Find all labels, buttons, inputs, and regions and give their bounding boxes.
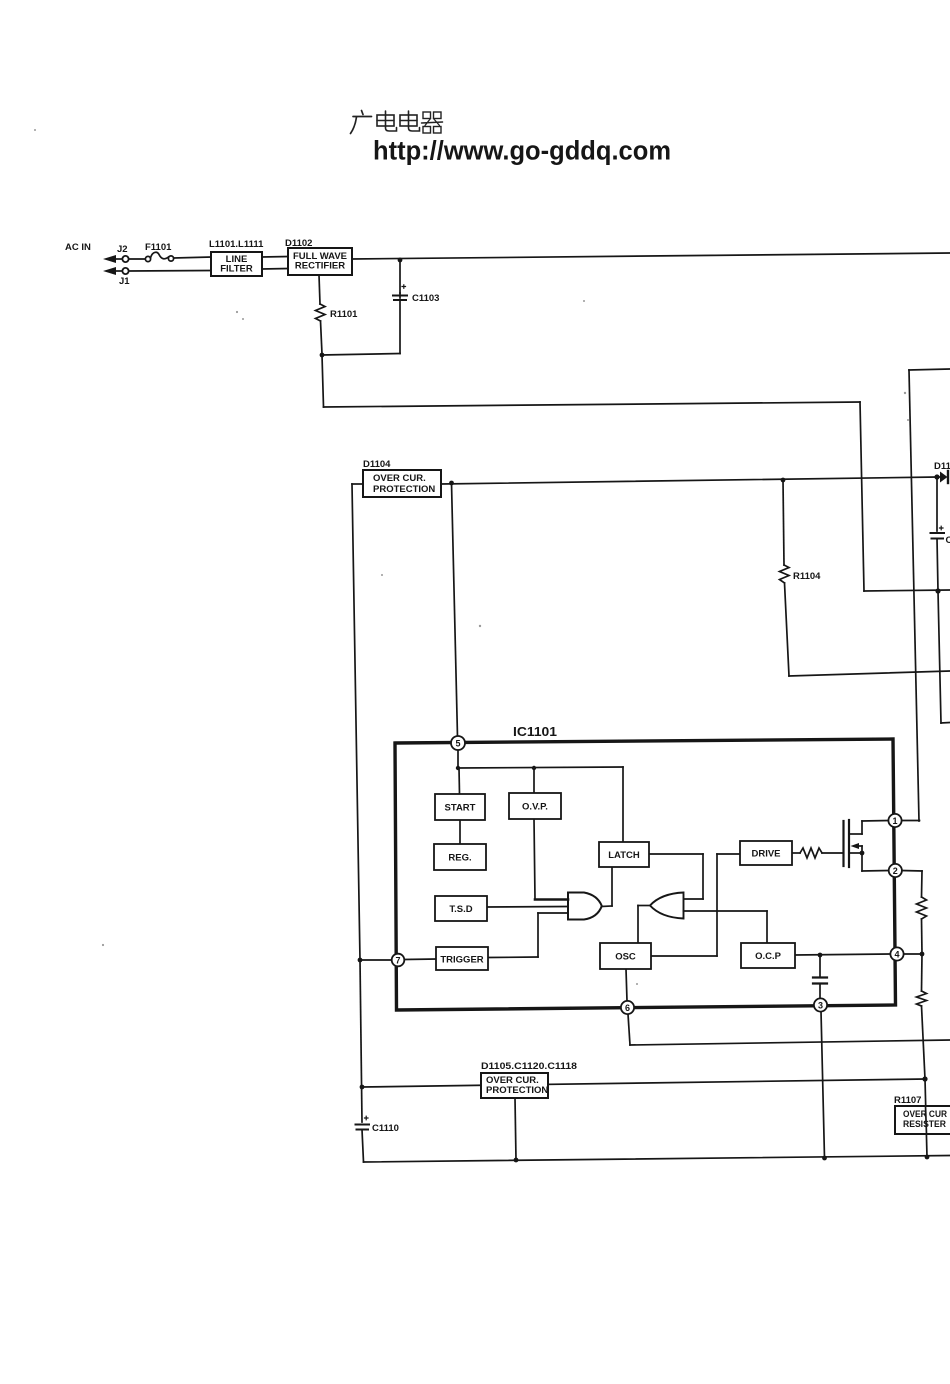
wire LATCH right to gate G2 xyxy=(649,853,703,855)
scan speck xyxy=(34,129,36,131)
svg-text:TRIGGER: TRIGGER xyxy=(440,955,483,966)
resistor R1101 xyxy=(316,304,326,321)
over current protection line (D1104 net) xyxy=(441,477,937,484)
svg-text:D110: D110 xyxy=(934,461,950,472)
resistor R1105 xyxy=(917,897,927,919)
block O.C.P xyxy=(741,943,795,968)
wire to pin 5 xyxy=(452,483,458,737)
svg-text:IC1101: IC1101 xyxy=(513,724,557,739)
resistor gate drive xyxy=(800,848,822,858)
wire TRIGGER to gate xyxy=(488,956,538,959)
block D1105 OVER CUR. PROTECTION xyxy=(481,1073,548,1098)
wire to START xyxy=(458,768,461,794)
scan speck xyxy=(479,625,481,627)
svg-text:O.C.P: O.C.P xyxy=(755,951,782,962)
internal top bus xyxy=(458,767,623,768)
pin 1 xyxy=(888,814,901,827)
node B+ top xyxy=(398,258,403,263)
wire to right edge xyxy=(789,671,950,676)
svg-text:4: 4 xyxy=(894,950,899,960)
wire OVP down xyxy=(534,819,535,899)
wire pin6 down xyxy=(628,1014,630,1045)
svg-text:C1: C1 xyxy=(946,535,950,546)
node pin5 feed xyxy=(449,481,454,486)
header chinese char 1 (guang) xyxy=(362,111,364,115)
svg-text:L1101.L1111: L1101.L1111 xyxy=(209,239,264,250)
svg-text:OSC: OSC xyxy=(615,952,636,963)
svg-text:R1104: R1104 xyxy=(793,571,821,582)
svg-text:R1107: R1107 xyxy=(894,1095,921,1106)
capacitor C1103 xyxy=(402,285,406,289)
block REG. xyxy=(434,844,486,870)
wire J2 to fuse xyxy=(129,258,146,260)
svg-text:J2: J2 xyxy=(117,244,128,255)
svg-text:http://www.go-gddq.com: http://www.go-gddq.com xyxy=(373,136,671,166)
transformer T1101 (cut at edge) xyxy=(909,369,950,370)
wire bottom AC rail to right xyxy=(324,402,861,407)
bottom rail xyxy=(364,1156,950,1163)
wire right to node xyxy=(864,590,950,591)
scan speck xyxy=(236,311,238,313)
wire fuse to line filter xyxy=(174,257,211,258)
node pin4 right xyxy=(920,952,925,957)
left rail down xyxy=(352,484,360,960)
wire gate G2 apex to OSC xyxy=(638,905,650,907)
wire down at x860 xyxy=(860,402,864,591)
wire line filter to rectifier bottom xyxy=(262,268,288,271)
wire R1101 to node xyxy=(321,321,323,354)
svg-text:DRIVE: DRIVE xyxy=(751,849,780,860)
wire pin3 down xyxy=(821,1011,825,1158)
block FULL WAVE RECTIFIER xyxy=(288,248,352,275)
node MOSFET source xyxy=(860,851,865,856)
header chinese char 3 (dian) xyxy=(400,115,417,126)
scan speck xyxy=(102,944,104,946)
wire resistor to pin4 node xyxy=(921,919,924,954)
IC1101 box xyxy=(395,739,896,1010)
svg-text:RESISTER: RESISTER xyxy=(903,1119,946,1130)
pin 6 xyxy=(621,1001,634,1014)
wire rectifier bottom to R1101 xyxy=(319,275,320,304)
svg-text:5: 5 xyxy=(455,739,460,749)
scan speck xyxy=(583,300,585,302)
wire gate G1 to LATCH bottom xyxy=(602,905,613,908)
fuse F1101 xyxy=(145,256,150,261)
block LATCH xyxy=(599,842,649,867)
wire DRIVE to gate resistor xyxy=(792,852,800,854)
node right 591 xyxy=(935,588,940,593)
svg-text:2: 2 xyxy=(893,866,898,876)
wire gate G2 to O.C.P xyxy=(684,910,768,912)
svg-text:1: 1 xyxy=(892,816,897,826)
pin 5 xyxy=(451,736,465,750)
svg-text:6: 6 xyxy=(625,1003,630,1013)
svg-text:D1104: D1104 xyxy=(363,459,391,470)
wire resistor to MOSFET gate xyxy=(822,852,843,854)
pin 7 xyxy=(392,954,405,967)
svg-text:D1102: D1102 xyxy=(285,238,312,249)
wire C1103 top xyxy=(399,260,401,293)
wire pin6 line to right edge xyxy=(630,1040,950,1045)
scan speck xyxy=(381,574,383,576)
over current protection line (D1105 net) xyxy=(362,1079,925,1087)
wire to R1104 xyxy=(783,480,784,565)
svg-text:LATCH: LATCH xyxy=(608,850,640,861)
wire node down xyxy=(322,355,324,407)
node R1107 bottom xyxy=(925,1155,930,1160)
block TRIGGER xyxy=(436,947,488,970)
resistor R1106 xyxy=(917,991,927,1006)
svg-text:OVER CUR.: OVER CUR. xyxy=(373,473,426,484)
capacitor C1110 xyxy=(365,1116,369,1120)
node pin7 rail xyxy=(358,958,363,963)
header chinese char 2 (dian) xyxy=(377,115,394,126)
wire rectifier to right edge (B+ rail) xyxy=(352,253,950,259)
scan speck xyxy=(242,318,244,320)
svg-text:C1103: C1103 xyxy=(412,293,439,304)
pin 4 xyxy=(890,947,903,960)
wire pin2 right xyxy=(902,870,923,873)
block DRIVE xyxy=(740,841,792,865)
block LINE FILTER xyxy=(211,252,262,276)
wire OSC to DRIVE xyxy=(651,955,717,957)
wire diode down to capacitor xyxy=(936,477,938,531)
svg-text:D1105.C1120.C1118: D1105.C1120.C1118 xyxy=(481,1061,577,1072)
block O.V.P. xyxy=(509,793,561,819)
wire capacitor to node xyxy=(937,539,938,592)
resistor R1104 xyxy=(780,565,790,583)
node left rail C1110 xyxy=(360,1085,365,1090)
header chinese char 4 (qi) xyxy=(423,112,431,119)
wire to LATCH top xyxy=(622,767,624,842)
svg-text:PROTECTION: PROTECTION xyxy=(373,484,435,495)
arrow J1 xyxy=(103,267,116,275)
wire node through R1107 box to bottom rail xyxy=(925,1079,927,1157)
pin 2 xyxy=(889,864,902,877)
transistor Q1101 MOSFET xyxy=(842,821,844,866)
wire resistor down to node xyxy=(922,1006,926,1079)
wire line filter to rectifier top xyxy=(262,256,288,259)
wire through R1107 box xyxy=(926,1106,927,1134)
wire node down xyxy=(921,954,924,991)
capacitor C (pin3) xyxy=(813,976,827,978)
wire R1104 down xyxy=(785,583,790,676)
svg-text:FILTER: FILTER xyxy=(220,264,253,275)
node internal bus ovp xyxy=(532,766,536,770)
wire into transformer xyxy=(941,722,950,725)
svg-text:RECTIFIER: RECTIFIER xyxy=(295,261,345,272)
pin 3 xyxy=(814,998,827,1011)
svg-text:3: 3 xyxy=(818,1001,823,1011)
capacitor C1108 right edge xyxy=(940,526,944,530)
svg-text:C1110: C1110 xyxy=(372,1123,399,1134)
wire START to REG xyxy=(459,820,461,844)
svg-text:7: 7 xyxy=(395,956,400,966)
arrow J2 xyxy=(103,255,116,263)
node diode D1103 xyxy=(934,474,939,479)
or-gate G2 xyxy=(650,893,684,919)
block T.S.D xyxy=(435,896,487,921)
wire OSC to pin 6 xyxy=(626,969,627,1001)
wire C1103 bottom xyxy=(399,300,401,354)
wire node down to transformer xyxy=(938,591,941,723)
scan speck xyxy=(904,392,906,394)
wire TSD to gate xyxy=(487,906,567,909)
node D1105 bottom xyxy=(514,1158,519,1163)
or-gate G1 xyxy=(568,893,602,920)
connector J2 xyxy=(122,256,128,262)
block D1104 OVER CUR. PROTECTION xyxy=(363,470,441,497)
svg-text:F1101: F1101 xyxy=(145,242,172,253)
svg-text:PROTECTION: PROTECTION xyxy=(486,1085,548,1096)
wire pin5 internal xyxy=(457,749,459,768)
svg-text:J1: J1 xyxy=(119,276,130,287)
wire pin4 to node xyxy=(904,953,923,955)
wire pin7 to TRIGGER xyxy=(360,959,392,961)
svg-text:O.V.P.: O.V.P. xyxy=(522,802,548,813)
wire OCP right to pin4 xyxy=(795,954,890,955)
node R1107 top xyxy=(922,1076,927,1081)
scan speck xyxy=(907,419,909,421)
node OCP cap xyxy=(818,953,823,958)
block START xyxy=(435,794,485,820)
svg-text:AC IN: AC IN xyxy=(65,242,91,253)
connector J1 xyxy=(122,268,128,274)
wire pin1 right to transformer xyxy=(902,820,920,822)
svg-text:R1101: R1101 xyxy=(330,309,358,320)
diode D1103 at right edge xyxy=(937,476,940,478)
svg-text:T.S.D: T.S.D xyxy=(449,904,472,915)
scan speck xyxy=(636,983,638,985)
svg-text:REG.: REG. xyxy=(448,853,471,864)
block OSC xyxy=(600,943,651,969)
node R1101/C1103 xyxy=(320,353,325,358)
node internal bus left xyxy=(456,766,460,770)
wire J1 to line filter xyxy=(129,270,211,273)
wire OCP node to capacitor xyxy=(819,955,821,976)
svg-text:START: START xyxy=(445,803,476,814)
node R1104 top xyxy=(781,478,786,483)
wire C1103 to R1101 node xyxy=(322,354,400,356)
block R1107 OVER CUR RESISTER xyxy=(895,1106,950,1134)
wire D1105 box down xyxy=(515,1098,516,1160)
node pin3 bottom xyxy=(822,1156,827,1161)
wire to O.V.P. xyxy=(533,768,535,793)
wire D1104 box left xyxy=(352,483,363,485)
